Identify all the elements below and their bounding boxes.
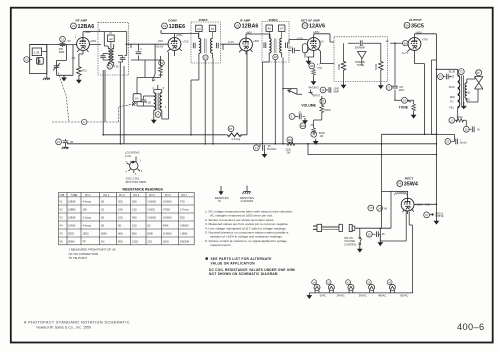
svg-text:†1000Ω: †1000Ω [163, 217, 172, 220]
svg-text:1.35: 1.35 [34, 50, 40, 54]
ground V4 cathode [306, 57, 313, 64]
svg-text:82Ω: 82Ω [180, 217, 185, 220]
svg-text:RESISTANCE READINGS: RESISTANCE READINGS [123, 188, 164, 192]
svg-text:48VAC: 48VAC [378, 294, 386, 298]
svg-text:CONTROL: CONTROL [344, 243, 357, 247]
svg-text:TP: TP [83, 241, 87, 244]
svg-text:12BA6: 12BA6 [68, 217, 76, 220]
svg-text:-.54: -.54 [71, 56, 76, 60]
svg-text:80VAC: 80VAC [400, 294, 408, 298]
grid wire V1 [66, 45, 76, 53]
svg-text:4.4meg: 4.4meg [83, 201, 92, 204]
osc grid cap [131, 44, 143, 60]
svg-text:†2900K: †2900K [180, 225, 189, 228]
svg-text:0Ω: 0Ω [147, 225, 150, 228]
svg-text:0Ω: 0Ω [118, 225, 121, 228]
svg-text:Pin 5: Pin 5 [149, 194, 155, 197]
T-RF primary coil [108, 46, 110, 66]
svg-text:0Ω: 0Ω [101, 225, 104, 228]
filament string wire [309, 292, 413, 294]
switch contact near osc [152, 44, 155, 81]
IF transformer 2 dashed box A6 A7 [262, 18, 289, 62]
svg-text:A2: A2 [109, 37, 113, 41]
cap 20 [438, 74, 452, 80]
osc section wiring [137, 52, 169, 119]
grid wire into V4 [289, 40, 308, 45]
power plug [313, 224, 342, 231]
svg-text:OUTPUT: OUTPUT [409, 18, 422, 22]
svg-text:†1000Ω: †1000Ω [147, 217, 156, 220]
svg-text:BLUE: BLUE [449, 71, 456, 74]
filament V5 [387, 280, 408, 298]
svg-text:+79V: +79V [422, 37, 429, 41]
resistor 4.7meg below V3 [309, 63, 323, 85]
svg-text:-0.1V: -0.1V [228, 40, 235, 44]
svg-text:Pin 1: Pin 1 [85, 194, 91, 197]
svg-text:RECT: RECT [405, 176, 414, 180]
svg-text:V6: V6 [398, 182, 402, 186]
svg-text:R8: R8 [310, 64, 314, 68]
IF transformer 1 dashed box A4 A5 [191, 18, 221, 63]
svg-text:500K: 500K [325, 108, 331, 112]
svg-text:48Ω: 48Ω [132, 217, 137, 220]
filament V4 [312, 280, 327, 298]
svg-text:INPUT: INPUT [313, 94, 321, 97]
svg-text:20mfd: 20mfd [460, 142, 468, 145]
svg-text:+82V: +82V [465, 98, 471, 101]
svg-text:12BE6: 12BE6 [68, 209, 76, 212]
filament V1 [326, 280, 345, 298]
cap 16 1000MMF [320, 87, 340, 93]
ground tuning cap [57, 52, 74, 81]
svg-text:†1000Ω: †1000Ω [147, 201, 156, 204]
svg-text:10K: 10K [83, 209, 88, 212]
osc padder cap 4.30 [141, 96, 152, 106]
svg-text:meg: meg [317, 67, 323, 70]
cathode resistor 47ohm [77, 54, 87, 83]
svg-text:†150Ω: †150Ω [180, 233, 188, 236]
B- bus lines [103, 50, 436, 135]
svg-text:VOLUME: VOLUME [344, 239, 355, 243]
T-RF secondary coil [110, 44, 113, 66]
tube V3 12BA6 [228, 19, 260, 55]
svg-text:500K: 500K [147, 233, 153, 236]
svg-text:NOT SHOWN ON SCHEMATIC DIAGRAM: NOT SHOWN ON SCHEMATIC DIAGRAM [209, 272, 278, 276]
svg-text:TP TIE POINT: TP TIE POINT [69, 256, 88, 260]
svg-text:0V: 0V [68, 39, 71, 43]
AVC dashed gang line [52, 73, 136, 125]
svg-text:IF AMP: IF AMP [240, 19, 250, 23]
ref 18 in IF2 [273, 54, 278, 59]
svg-text:12AV6: 12AV6 [68, 225, 76, 228]
svg-text:.05: .05 [381, 233, 385, 236]
svg-text:RF AMP: RF AMP [76, 19, 88, 23]
svg-text:VALUE OR APPLICATION: VALUE OR APPLICATION [211, 262, 256, 266]
tube V1 12BA6 [68, 19, 97, 54]
parts list note [205, 257, 295, 276]
svg-text:V4: V4 [303, 24, 307, 28]
svg-text:.05: .05 [298, 112, 302, 115]
svg-text:400V: 400V [399, 89, 405, 92]
line bypass caps [368, 134, 388, 228]
svg-text:0V: 0V [320, 39, 323, 43]
svg-text:85Ω: 85Ω [132, 233, 137, 236]
svg-text:180Ω: 180Ω [465, 92, 471, 95]
resistance readings table [58, 188, 194, 261]
grid wire from antenna section to V2 [89, 44, 168, 48]
feeds below IF2 [263, 58, 284, 144]
ref 14 osc coil [155, 112, 161, 118]
cap 23 to chassis left end [56, 139, 74, 149]
svg-text:28Ω: 28Ω [132, 201, 137, 204]
svg-text:B-: B- [219, 199, 222, 203]
ground osc [152, 118, 156, 123]
svg-text:24VAC: 24VAC [337, 294, 345, 298]
tube V5 35C5 [402, 18, 428, 55]
svg-text:A6: A6 [268, 27, 272, 31]
svg-text:M: M [110, 32, 112, 35]
svg-text:TONE: TONE [399, 106, 409, 110]
svg-text:DC COIL RESISTANCE VALUES UNDE: DC COIL RESISTANCE VALUES UNDER ONE OHM [209, 268, 295, 272]
svg-text:NC: NC [101, 241, 105, 244]
svg-text:2.7meg: 2.7meg [180, 209, 189, 212]
svg-text:2W: 2W [287, 151, 291, 154]
svg-text:12Ω: 12Ω [147, 241, 152, 244]
svg-text:†1000Ω: †1000Ω [163, 201, 172, 204]
svg-text:24Ω: 24Ω [118, 209, 123, 212]
svg-text:+80V: +80V [253, 39, 260, 43]
denotes B- symbol [215, 186, 229, 203]
on-off switch [344, 228, 362, 252]
svg-text:Pin 4: Pin 4 [134, 194, 140, 197]
resistor R7 2.2meg on bus [226, 126, 243, 141]
svg-text:12BE6: 12BE6 [169, 24, 185, 30]
svg-text:TUBE: TUBE [71, 194, 78, 197]
svg-text:SP: SP [477, 72, 481, 75]
svg-text:1Ω: 1Ω [101, 209, 104, 212]
svg-text:500K: 500K [101, 233, 107, 236]
svg-text:Howard W. Sams & Co., Inc. 195: Howard W. Sams & Co., Inc. 1950 [37, 326, 92, 330]
svg-text:DENOTES: DENOTES [215, 196, 229, 200]
svg-text:36VAC: 36VAC [359, 294, 367, 298]
tone wiring [395, 99, 414, 101]
IF1 coils [199, 39, 213, 59]
coupling cap 27 .047 400V [386, 42, 405, 100]
det resistor 250K [337, 43, 346, 88]
svg-text:TOTAL: TOTAL [357, 63, 366, 67]
svg-text:FUSIBLE: FUSIBLE [395, 190, 406, 194]
svg-text:35C5: 35C5 [68, 233, 75, 236]
svg-text:CHASSIS: CHASSIS [241, 199, 254, 203]
svg-text:A PHOTOFACT STANDARD NOTATION: A PHOTOFACT STANDARD NOTATION SCHEMATIC [24, 320, 130, 324]
resistor R4 20K osc [158, 56, 164, 78]
svg-text:150Ω: 150Ω [83, 233, 89, 236]
det resistor 500K [374, 43, 383, 88]
svg-text:-0.9V: -0.9V [297, 37, 304, 41]
cap 11 .05 50-600V [253, 144, 276, 157]
phono jack [309, 85, 321, 97]
V3 wires [221, 34, 271, 50]
svg-text:50-600V: 50-600V [267, 148, 277, 151]
svg-text:MMF: MMF [334, 90, 340, 93]
transformer lead labels [449, 71, 471, 110]
V6 filament leads down [380, 211, 412, 293]
svg-text:12BA6: 12BA6 [68, 201, 76, 204]
svg-text:0Ω: 0Ω [101, 217, 104, 220]
svg-text:1W: 1W [320, 135, 324, 138]
ref 34 grid V5 [390, 41, 408, 46]
speaker [467, 70, 483, 102]
wire V2 plate to IF1 [161, 30, 199, 39]
svg-text:measurements.: measurements. [210, 243, 231, 247]
osc transformer coils [153, 87, 168, 113]
osc coil bottom view [125, 151, 146, 185]
svg-text:Pin 6: Pin 6 [165, 194, 171, 197]
svg-text:A3: A3 [135, 96, 139, 100]
svg-text:150Ω: 150Ω [163, 241, 169, 244]
output transformer T1 [458, 69, 467, 111]
feeds below IF1 [191, 58, 213, 144]
tuning capacitor C1A [53, 45, 66, 73]
volume pot 500K [314, 96, 331, 120]
svg-text:35W4: 35W4 [68, 241, 75, 244]
svg-text:13Ω: 13Ω [132, 209, 137, 212]
volume pot wiper arrow [283, 89, 302, 95]
trimmer cap right in A2 [118, 56, 125, 63]
svg-text:122Ω: 122Ω [132, 241, 138, 244]
svg-text:12BA6: 12BA6 [78, 24, 95, 30]
svg-text:400–6: 400–6 [457, 322, 485, 332]
electrolytic 23b 20mfd [445, 138, 467, 144]
vertical feed wires below A2 [103, 63, 124, 144]
line cap .05 to ground [366, 231, 385, 245]
denotes chassis symbol [240, 186, 254, 204]
IF1 tuning caps [193, 43, 195, 49]
ground below antenna [43, 64, 50, 80]
V4 grid cap box [302, 44, 307, 58]
svg-text:Pin 3: Pin 3 [119, 194, 125, 197]
svg-text:+80V: +80V [90, 39, 97, 43]
svg-text:V1: V1 [72, 24, 76, 28]
rectifier input resistor [382, 191, 408, 228]
svg-text:6+7V: 6+7V [402, 51, 409, 55]
svg-text:15Ω: 15Ω [132, 225, 137, 228]
svg-text:35W4: 35W4 [404, 182, 418, 188]
svg-text:R7: R7 [229, 127, 233, 131]
tube V4 12AV6 [297, 18, 326, 57]
resistor 500ohm 1W [311, 131, 325, 144]
cap .50 [288, 46, 300, 54]
svg-text:.50: .50 [289, 46, 293, 50]
svg-text:V2: V2 [163, 24, 167, 28]
svg-text:TUB: TUB [59, 194, 64, 197]
svg-text:†1400Ω: †1400Ω [163, 233, 172, 236]
svg-text:PHONO: PHONO [309, 85, 319, 89]
wire V1 plate to T-RF [83, 32, 127, 56]
svg-text:DET-AF AMP: DET-AF AMP [301, 18, 320, 22]
V5 plate to T1 wire [415, 34, 458, 135]
svg-text:500MMF: 500MMF [355, 45, 366, 49]
B+ takeoff 37 [424, 204, 444, 224]
svg-text:FE1: FE1 [449, 106, 454, 109]
svg-text:R10: R10 [301, 124, 306, 128]
IF2 coils [269, 38, 282, 57]
svg-text:250K: 250K [337, 64, 341, 70]
electrolytic 22 40mfd [463, 126, 480, 132]
resistor 21 470ohm [449, 111, 466, 127]
det diode load [355, 52, 366, 68]
svg-text:A7: A7 [280, 27, 284, 31]
svg-text:20K: 20K [159, 73, 164, 77]
svg-text:456KC: 456KC [199, 18, 209, 22]
dashed box RF transformer A2 [98, 22, 129, 75]
svg-text:-51V: -51V [158, 39, 164, 43]
svg-text:V3: V3 [236, 24, 240, 28]
svg-text:BOTTOM VIEW: BOTTOM VIEW [126, 180, 147, 184]
antenna loop assembly box [30, 45, 47, 74]
trimmer cap left in A2 [100, 54, 108, 61]
svg-text:47Ω: 47Ω [180, 201, 185, 204]
svg-text:4.4meg: 4.4meg [83, 225, 92, 228]
footer credit text [24, 320, 130, 329]
svg-text:15Ω: 15Ω [118, 217, 123, 220]
svg-text:85Ω: 85Ω [118, 241, 123, 244]
svg-text:510Ω: 510Ω [449, 86, 455, 89]
tube V6 35W4 rectifier [395, 176, 430, 214]
svg-text:0Ω: 0Ω [464, 105, 467, 108]
svg-text:V5: V5 [405, 23, 409, 27]
V6 plate wire [414, 34, 436, 205]
det cap 500MMF [348, 40, 374, 49]
svg-text:0Ω: 0Ω [101, 201, 104, 204]
svg-text:A4: A4 [197, 27, 201, 31]
numbered notes [205, 210, 293, 248]
svg-text:SW ON: SW ON [344, 236, 353, 240]
part ref 11 (loop antenna) [24, 57, 32, 63]
svg-text:RED: RED [450, 96, 455, 99]
svg-text:ΩNONN: ΩNONN [180, 241, 189, 244]
filament V3 [346, 280, 367, 298]
svg-text:500K: 500K [374, 64, 378, 70]
svg-text:†700Ω: †700Ω [163, 209, 171, 212]
svg-text:LUG: LUG [125, 154, 132, 158]
resistor R10 2K [300, 120, 316, 134]
IF2 tuning caps [264, 42, 266, 48]
wire V4 plate to det box [314, 34, 334, 64]
wire antenna top [30, 45, 67, 65]
osc coil box A3 [132, 94, 141, 106]
svg-text:1400: 1400 [449, 76, 455, 79]
svg-text:4.30: 4.30 [146, 101, 152, 105]
svg-text:456KC: 456KC [269, 18, 279, 22]
cap 9 .05 with ground [289, 112, 307, 124]
svg-text:.05: .05 [70, 140, 74, 144]
tone control 50K [399, 97, 416, 118]
svg-text:A1: A1 [38, 60, 42, 64]
svg-text:12BA6: 12BA6 [242, 23, 259, 29]
svg-text:4.3K: 4.3K [114, 64, 120, 68]
svg-text:A5: A5 [211, 27, 215, 31]
svg-text:48Ω: 48Ω [118, 233, 123, 236]
svg-text:MMF: MMF [59, 51, 65, 54]
svg-text:VOLUME: VOLUME [301, 103, 316, 107]
detector dashed box [334, 37, 388, 82]
svg-text:CONV: CONV [168, 19, 178, 23]
svg-text:2.2meg: 2.2meg [83, 217, 92, 220]
resistor 2200 2W on bus [286, 137, 296, 154]
svg-text:Pin 2: Pin 2 [104, 194, 110, 197]
svg-text:FU: FU [450, 101, 453, 104]
interlock connector [349, 225, 391, 232]
capacitor 13 250MMF [59, 36, 66, 54]
svg-text:47Ω: 47Ω [82, 69, 87, 73]
svg-text:-50.5V: -50.5V [156, 45, 164, 49]
svg-text:+72V: +72V [182, 40, 189, 44]
svg-text:SEE PARTS LIST FOR ALTERNATE: SEE PARTS LIST FOR ALTERNATE [211, 257, 272, 261]
svg-text:2.2meg: 2.2meg [232, 137, 241, 141]
tube V2 12BE6 [156, 19, 189, 56]
B+ line down right [431, 60, 454, 141]
svg-text:†100Ω: †100Ω [147, 209, 155, 212]
junction dots [102, 69, 437, 156]
svg-text:V7: V7 [369, 206, 373, 210]
ref 15 in IF1 [203, 55, 208, 60]
filament V2 [366, 280, 386, 298]
svg-text:940K: 940K [163, 225, 169, 228]
svg-text:+80V: +80V [85, 30, 92, 34]
svg-text:A: A [83, 120, 85, 124]
ref 12 4.3K in A2 [107, 64, 119, 70]
svg-text:30Ω: 30Ω [118, 201, 123, 204]
svg-text:35C5: 35C5 [411, 23, 424, 29]
svg-text:0VAC: 0VAC [320, 294, 327, 298]
svg-text:R11: R11 [288, 138, 293, 142]
svg-text:Pin 7: Pin 7 [182, 194, 188, 197]
svg-text:12AV6: 12AV6 [309, 24, 325, 30]
